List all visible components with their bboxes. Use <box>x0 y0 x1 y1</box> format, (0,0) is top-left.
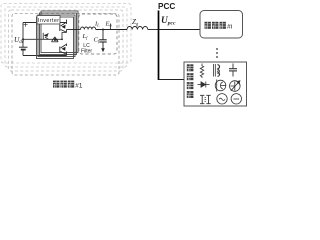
DC source Udc <box>19 23 28 56</box>
wire: Zg to PCC bus <box>148 29 159 31</box>
svg-text:Lf: Lf <box>82 33 89 40</box>
Eo tick <box>110 24 112 30</box>
wire: bridge output <box>67 29 81 31</box>
load transformer <box>200 95 211 103</box>
load AC machine 1 <box>217 94 227 104</box>
capacitor Cf <box>99 30 106 49</box>
inverter cell sheet 4 (back) <box>1 4 131 64</box>
label 逆变器#i (drawn glyphs) <box>205 22 211 29</box>
wire: bus to inverter #i <box>159 29 201 31</box>
svg-text:#1: #1 <box>75 82 83 89</box>
label 逆变器#1 (drawn glyphs) <box>53 81 59 88</box>
wire: bottom DC rail <box>23 55 67 57</box>
ellipsis between inverter #i and load <box>216 48 218 58</box>
svg-text:#i: #i <box>227 24 233 31</box>
inverter cell sheet 3 <box>5 7 127 67</box>
impedance Zg coil <box>127 27 148 30</box>
label 本地负载 (vertical, drawn glyphs) <box>187 64 194 71</box>
wire: filter output <box>96 29 127 31</box>
inverter #i box <box>200 11 243 39</box>
IGBT Q4 (bottom switch) <box>60 44 67 56</box>
load AC machine 2 <box>231 94 241 104</box>
load diode <box>198 82 210 88</box>
load motor M1 <box>215 80 226 92</box>
svg-text:Upcc: Upcc <box>161 16 176 27</box>
IGBT Q3 (right, on middle branch) <box>52 37 59 42</box>
LC filter dashed box <box>79 14 117 54</box>
load capacitor <box>229 64 237 77</box>
inverter cell sheet 2 <box>9 10 124 71</box>
wire: middle DC branch <box>23 38 62 40</box>
svg-text:Filter: Filter <box>81 49 92 55</box>
inverter power module stack (4 nested solid rects) <box>37 11 79 59</box>
inductor Lf coil <box>81 27 96 30</box>
load resistor <box>200 64 203 79</box>
svg-text:IL: IL <box>94 20 100 27</box>
DC positive terminal plus marker <box>24 23 28 27</box>
node: capacitor junction <box>102 29 104 31</box>
svg-text:Inverter: Inverter <box>38 18 59 24</box>
node: DC mid junction <box>22 38 24 40</box>
PCC bus <box>158 11 160 81</box>
node: middle branch to leg junction <box>61 38 63 40</box>
wire: top DC rail <box>23 22 67 24</box>
wire: junction up to output corner <box>62 33 67 40</box>
Inverter label box <box>37 16 60 25</box>
inverter cell sheet 1 (front, inverter #1) <box>12 14 119 76</box>
IGBT Q1 (top switch) <box>60 20 67 33</box>
svg-text:Zg: Zg <box>132 18 139 27</box>
load inductor (iron core) <box>214 64 220 77</box>
load adjustable device <box>230 81 241 92</box>
IGBT Q2 (left, on middle branch) <box>43 33 48 40</box>
svg-text:PCC: PCC <box>158 2 175 11</box>
svg-text:Cf: Cf <box>94 37 100 44</box>
local load box <box>184 62 247 106</box>
wire: bus to local load <box>159 79 185 81</box>
svg-text:Eo: Eo <box>105 21 113 28</box>
